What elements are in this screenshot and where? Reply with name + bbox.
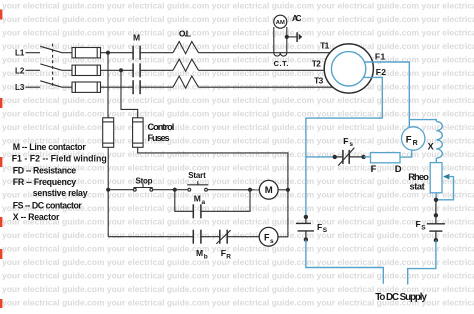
wire left rail to Mb [108, 236, 193, 238]
control fuse 2 [133, 118, 144, 148]
junction left rail stop row [106, 188, 110, 192]
wire L1 tap to control fuse 1 [107, 53, 109, 118]
switch blade L3 [40, 81, 62, 87]
wire L2 tap to control fuse 2 [121, 70, 138, 118]
wire L2 stub [26, 69, 41, 71]
wire L1 stub [26, 52, 41, 54]
svg-text:FS -- DC contactor: FS -- DC contactor [13, 201, 83, 211]
svg-text:AC: AC [292, 14, 302, 23]
svg-text:stat: stat [410, 181, 425, 192]
svg-text:L3: L3 [15, 83, 25, 92]
junction below right Fs contact [434, 238, 438, 242]
switch blade L2 [40, 64, 62, 70]
svg-text:C.T.: C.T. [274, 59, 289, 68]
svg-text:Fuses: Fuses [148, 133, 170, 143]
legend [12, 142, 107, 222]
svg-text:F1: F1 [375, 52, 386, 62]
svg-text:R: R [413, 140, 418, 147]
DC contactor NC contact Fs (middle) [335, 148, 364, 166]
svg-text:L1: L1 [15, 49, 25, 58]
svg-text:s: s [270, 238, 274, 245]
contactor M main contact pole 3 [133, 80, 140, 94]
junction rheostat wiper [434, 198, 438, 202]
wire FD to FR relay [400, 150, 412, 157]
svg-text:D: D [395, 164, 402, 175]
contactor M main contact pole 1 [133, 46, 140, 60]
svg-text:your electrical guide.com your: your electrical guide.com your electrica… [2, 28, 474, 38]
svg-text:FD -- Resistance: FD -- Resistance [13, 166, 76, 176]
wire Mb to FR contact [201, 236, 219, 238]
svg-text:F: F [406, 135, 412, 146]
ammeter AM [274, 15, 287, 28]
junction above right Fs contact [434, 213, 438, 217]
DC contactor contact Fs (right) [427, 224, 445, 231]
resistance FD [371, 153, 401, 163]
current transformer C.T. loops [274, 53, 287, 56]
svg-text:S: S [421, 224, 426, 231]
right Fs contact label [416, 219, 427, 231]
wire OL to motor L3 [199, 86, 333, 88]
wire FR node to reactor X [409, 120, 436, 122]
fuse L2 (line fuse) [72, 65, 101, 75]
svg-text:F: F [317, 222, 322, 232]
svg-text:X: X [428, 141, 434, 151]
svg-text:F: F [221, 248, 226, 258]
junction right rail M row [286, 188, 290, 192]
junction above left Fs contact [304, 215, 308, 219]
contactor M main contact pole 2 [133, 63, 140, 77]
svg-text:X -- Reactor: X -- Reactor [13, 212, 60, 222]
svg-text:T1: T1 [320, 41, 329, 51]
junction L1 tap [106, 51, 110, 55]
wire F2 (field) motor to Fs contact column [306, 77, 382, 217]
wire FR contact to Fs coil [228, 236, 260, 238]
svg-text:your electrical guide.com your: your electrical guide.com your electrica… [2, 14, 474, 24]
svg-text:M: M [133, 33, 140, 43]
Control Fuses label [148, 122, 175, 143]
svg-text:Stop: Stop [136, 176, 153, 185]
svg-text:your electrical guide.com your: your electrical guide.com your electrica… [2, 230, 474, 240]
wire fuse to contactor L1 [101, 52, 134, 54]
left Fs contact stubs [305, 217, 307, 240]
contactor coil M [259, 180, 278, 199]
svg-text:your electrical guide.com your: your electrical guide.com your electrica… [2, 243, 474, 253]
current transformer C.T. secondary leads [274, 27, 287, 53]
auxiliary contact Ma [193, 204, 201, 218]
rheostat wiper arrow [436, 174, 453, 200]
wire fuse to contactor L3 [101, 86, 134, 88]
overload heater O.L pole 3 [173, 76, 199, 88]
node L1 [15, 49, 25, 58]
svg-text:M: M [265, 185, 273, 196]
svg-text:your electrical guide.com your: your electrical guide.com your electrica… [2, 95, 474, 105]
wire start to M coil [207, 189, 259, 191]
wire switch to fuse L2 [62, 69, 72, 71]
junction Ma branch right [248, 188, 252, 192]
frequency sensitive relay FR [402, 127, 425, 150]
overload heater O.L pole 2 [173, 59, 199, 71]
wire L3 stub [26, 86, 41, 88]
svg-text:T2: T2 [312, 59, 321, 69]
wire rail to stop [108, 189, 133, 191]
wire contactor to OL L2 [140, 69, 173, 71]
svg-text:O.L: O.L [179, 28, 191, 38]
switch blade L1 [40, 46, 62, 52]
fuse L3 (line fuse) [72, 82, 101, 92]
svg-text:Control: Control [148, 122, 175, 132]
svg-text:M: M [194, 193, 201, 203]
svg-text:F: F [416, 219, 421, 229]
svg-text:R: R [226, 253, 231, 260]
fuse L1 (line fuse) [72, 48, 101, 58]
wire left Fs contact to DC supply [306, 240, 383, 284]
ground [297, 32, 302, 42]
svg-text:a: a [202, 199, 206, 206]
junction Fs NC contact left [333, 155, 337, 159]
svg-text:senstive relay: senstive relay [33, 188, 88, 198]
FR contact label [221, 248, 232, 260]
junction below left Fs contact [304, 237, 308, 241]
control fuse 1 [103, 118, 114, 148]
wire contactor to OL L3 [140, 86, 173, 88]
svg-text:your electrical guide.com your: your electrical guide.com your electrica… [2, 257, 474, 267]
middle Fs contact label [343, 136, 353, 148]
svg-text:F1 - F2 -- Field winding: F1 - F2 -- Field winding [12, 154, 107, 164]
svg-text:S: S [323, 227, 328, 234]
reactor X coil [436, 122, 442, 159]
wire contactor to OL L1 [140, 52, 173, 54]
svg-text:your electrical guide.com your: your electrical guide.com your electrica… [2, 216, 474, 226]
svg-text:T3: T3 [314, 76, 323, 86]
Rheostat label [408, 171, 429, 192]
Ma label [194, 193, 206, 205]
DC contactor contact Fs (left) [296, 223, 314, 231]
wire X coil to rheostat [435, 158, 437, 163]
motor stator T1 T2 T3 (outer circle) [324, 44, 373, 93]
svg-text:F: F [371, 164, 377, 175]
wire rheostat to Fs contact (right) [435, 200, 437, 223]
overload heater O.L pole 1 [173, 42, 199, 54]
junction Ma branch left [173, 188, 177, 192]
wire rheostat bottom [435, 193, 437, 200]
left Fs contact label [317, 222, 328, 234]
wire switch to fuse L3 [62, 86, 72, 88]
wire OL to motor L2 [199, 69, 325, 71]
wire control fuse 1 down left rail [107, 147, 109, 236]
wire control fuse 2 to right rail [138, 147, 288, 236]
svg-text:M: M [196, 248, 203, 258]
svg-text:your electrical guide.com your: your electrical guide.com your electrica… [2, 1, 474, 11]
wire Ma holding branch [175, 190, 193, 212]
node L2 [15, 66, 25, 75]
FD label [371, 164, 402, 175]
svg-text:your electrical guide.com your: your electrical guide.com your electrica… [2, 122, 474, 132]
svg-text:L2: L2 [15, 66, 25, 75]
start pushbutton (NO) [187, 181, 208, 191]
switch gang linkage dashed [52, 44, 54, 89]
auxiliary contact Mb [193, 230, 201, 244]
wire right Fs contact to DC supply [408, 240, 436, 284]
junction L2 tap [119, 68, 123, 72]
rheostat body [430, 163, 442, 193]
svg-text:b: b [204, 253, 208, 260]
wire Ma to junction [201, 190, 250, 212]
svg-text:your electrical guide.com your: your electrical guide.com your electrica… [2, 108, 474, 118]
svg-text:your electrical guide.com your: your electrical guide.com your electrica… [2, 270, 474, 280]
svg-text:s: s [349, 141, 353, 148]
wire stop to start [153, 189, 188, 191]
wire to ground [287, 36, 297, 38]
svg-text:F: F [343, 136, 348, 146]
svg-text:M -- Line contactor: M -- Line contactor [13, 142, 87, 152]
junction FD left [361, 155, 365, 159]
contactor coil Fs [259, 227, 278, 246]
wire fuse to contactor L2 [101, 69, 134, 71]
svg-text:FR -- Frequency: FR -- Frequency [13, 177, 76, 187]
Mb label [196, 248, 208, 260]
svg-text:F2: F2 [376, 67, 387, 77]
wire OL to motor L1 [199, 52, 330, 54]
svg-text:AM: AM [276, 20, 285, 26]
wire tee to Fs NC contact [306, 156, 335, 158]
wire right Fs contact lower stub [435, 231, 437, 240]
stop pushbutton (NC) [133, 184, 152, 192]
node L3 [15, 83, 25, 92]
junction CT ground tap [285, 35, 289, 39]
wire M coil to right rail [278, 189, 288, 191]
svg-text:To DC Supply: To DC Supply [375, 292, 427, 303]
motor rotor field winding (inner circle) [331, 52, 365, 86]
wire to FD resistance [364, 156, 371, 158]
relay contact FR (NC) [216, 230, 230, 244]
wire switch to fuse L1 [62, 52, 72, 54]
svg-text:Start: Start [188, 171, 206, 180]
wire F1 (field) motor to FR node [364, 62, 409, 127]
wire Fs coil to right rail [278, 236, 288, 238]
